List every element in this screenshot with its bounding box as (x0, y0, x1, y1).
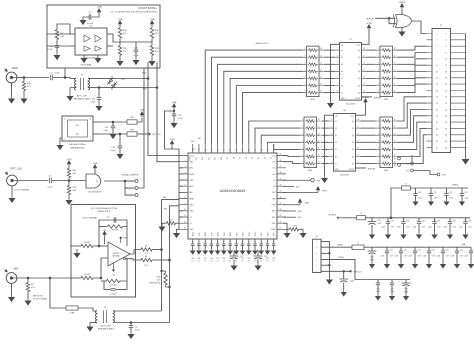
svg-text:Q4: Q4 (358, 71, 360, 73)
net label UPWR (J2) (337, 245, 343, 247)
wire row2 cap 0 top (386, 247, 388, 251)
jumper pad ENC_OUT (125, 187, 138, 191)
svg-text:38: 38 (280, 160, 282, 162)
ground (row1 cap 4) (448, 233, 452, 239)
svg-text:FB3: FB3 (130, 130, 133, 132)
ADC bottom pin numbers (192, 241, 275, 243)
ground (J1 rail) (463, 157, 469, 164)
svg-text:C1: C1 (190, 217, 192, 219)
svg-text:3: 3 (437, 40, 438, 42)
svg-text:37: 37 (211, 150, 213, 152)
svg-text:AIN: AIN (164, 208, 168, 211)
ground (UPBUS cap 0) (413, 200, 417, 206)
ground (R13) (149, 59, 154, 65)
wire gate out (104, 180, 135, 182)
svg-text:+5VA: +5VA (304, 201, 309, 204)
svg-text:C52: C52 (449, 192, 452, 194)
svg-text:20: 20 (229, 241, 231, 243)
wire row1 cap 5 top (465, 218, 467, 222)
ground (AIN shield) (9, 295, 14, 301)
wire C10 top (112, 122, 114, 126)
resistor R6 499 (79, 242, 95, 248)
wire row3 cap 0 bot (377, 285, 379, 294)
svg-text:C26: C26 (210, 258, 213, 260)
capacitor C46b 0.1uF (436, 250, 449, 258)
svg-text:AD8138: AD8138 (113, 252, 119, 255)
svg-text:2: 2 (446, 33, 447, 35)
capacitor C11 0.1uF (172, 114, 184, 120)
wire row2 cap 6 bot (470, 253, 472, 262)
junction AIN T2 (49, 277, 51, 279)
svg-text:18: 18 (217, 241, 219, 243)
ground (bottom pin 4) (216, 249, 220, 254)
svg-text:DO NOT INSTALL: DO NOT INSTALL (82, 216, 97, 219)
wire U8-RN4 row 135 (361, 134, 376, 136)
wire bottom cap 2 to gnd (204, 246, 206, 249)
wire E3 up (411, 155, 413, 162)
wire row2 cap 1 bot (400, 253, 402, 262)
optional DC-coupled encode circuit box (47, 5, 160, 68)
power OPW (right) (283, 187, 327, 193)
connector J1 (432, 25, 451, 153)
svg-text:DVCC: DVCC (243, 231, 245, 236)
svg-text:R15: R15 (73, 170, 78, 172)
svg-text:6.3V: 6.3V (432, 256, 435, 258)
svg-text:29: 29 (436, 122, 438, 124)
svg-text:D11: D11 (215, 157, 217, 160)
svg-text:ENC: ENC (142, 73, 147, 75)
wire C45 top (343, 271, 345, 279)
wire opamp out b (126, 259, 139, 260)
svg-text:D10: D10 (221, 157, 223, 160)
junction enc bus a (147, 78, 149, 80)
resistor R11 510 (118, 44, 127, 57)
svg-text:+3.3VD: +3.3VD (366, 23, 373, 25)
wire RN3-U8 row 156 (322, 156, 329, 158)
wire RN2-J1 row 2 (397, 59, 427, 65)
svg-text:+: + (364, 249, 366, 251)
svg-text:C50: C50 (418, 192, 421, 194)
junction osc C10 (112, 121, 114, 123)
svg-text:+5VA: +5VA (140, 109, 145, 112)
svg-text:39: 39 (280, 154, 282, 156)
svg-text:U8: U8 (343, 110, 345, 112)
wire AIN out (17, 277, 71, 279)
capacitor C47 (bottom decoupling) (235, 244, 239, 246)
wire bottom cap 3 to gnd (210, 246, 212, 249)
svg-text:+: + (250, 254, 252, 256)
svg-text:29: 29 (260, 150, 262, 152)
svg-text:0.1µF: 0.1µF (397, 226, 401, 228)
wire C28 bot (98, 99, 100, 104)
ground (row2 cap 4) (441, 262, 445, 268)
wire UPWR to bead (342, 217, 357, 219)
svg-text:GND: GND (190, 180, 195, 182)
junction L2 feed (390, 217, 392, 219)
resistor R18 (288, 225, 300, 231)
power +5VA (R10) (118, 18, 123, 27)
bus D1 group2 right (283, 156, 300, 157)
ground (bottom pin 10) (253, 249, 257, 254)
wire left bus join 3 (179, 173, 183, 175)
svg-text:D3: D3 (341, 64, 343, 66)
ground (bottom pin 9) (247, 249, 251, 254)
wire gate in b (389, 18, 396, 23)
net label ENC (142, 73, 147, 75)
capacitor C42b 0.1uF (380, 250, 393, 258)
wire RN1-U7 row 78 (324, 77, 335, 79)
wire U8 clk route (356, 167, 367, 169)
wire row2 cap 4 bot (442, 253, 444, 262)
bus D3 group2 (268, 142, 301, 144)
svg-text:R2: R2 (31, 284, 34, 286)
svg-text:510: 510 (155, 33, 159, 35)
bus D7 group1 (243, 93, 303, 144)
power arrow UPWR IN (328, 214, 342, 219)
capacitor C46 0.1uF (376, 283, 380, 293)
junction gate out (124, 180, 126, 182)
wire C41 top (371, 247, 373, 251)
svg-text:OE: OE (335, 116, 337, 118)
svg-text:0.1µF: 0.1µF (422, 256, 426, 258)
ground (bottom pin 6) (228, 249, 232, 254)
svg-text:33: 33 (235, 150, 237, 152)
svg-text:D9: D9 (227, 157, 229, 159)
label AINB net (164, 208, 168, 211)
capacitor C41 (bottom decoupling) (197, 244, 201, 246)
svg-text:0.1µF: 0.1µF (436, 256, 440, 258)
wire R4 node (57, 24, 70, 34)
svg-text:C27: C27 (216, 258, 219, 260)
wire U8-RN4 row 156 (361, 156, 376, 158)
ground (R17) (159, 225, 164, 231)
svg-text:22: 22 (242, 241, 244, 243)
svg-text:13: 13 (184, 228, 186, 230)
wire L2 feed from row below (391, 188, 402, 218)
wire ENC line A to bus (116, 78, 148, 80)
svg-text:DO NOT INSTALL: DO NOT INSTALL (14, 189, 29, 192)
svg-text:31: 31 (280, 203, 282, 205)
J1 left pin stubs (427, 34, 433, 148)
svg-text:Q2: Q2 (352, 128, 354, 130)
ground (bottom pin 2) (203, 249, 207, 254)
svg-text:C23: C23 (191, 258, 194, 260)
wire C21 top (233, 251, 235, 256)
svg-text:0.1µF: 0.1µF (428, 226, 432, 228)
svg-text:(SEE NOTE 4): (SEE NOTE 4) (97, 211, 110, 213)
ground (row1 cap 1) (401, 233, 405, 239)
wire opamp vcc (104, 237, 106, 244)
svg-text:11: 11 (320, 84, 322, 86)
svg-text:AVCC: AVCC (217, 231, 220, 236)
wire T1 prim bot gnd stub (69, 88, 71, 95)
svg-text:RN4: RN4 (384, 170, 389, 172)
svg-text:R9 499: R9 499 (112, 230, 118, 232)
ground (row2 cap 2) (413, 262, 417, 268)
resistor R10 510 (118, 26, 127, 40)
svg-text:11: 11 (184, 215, 186, 217)
svg-text:DNC: DNC (298, 217, 302, 219)
wire R8 to bus (154, 259, 170, 261)
wire row2 cap 5 bot (456, 253, 458, 262)
capacitor C18 1pF (110, 289, 116, 296)
svg-text:R17: R17 (169, 220, 172, 222)
inverting output marker (123, 258, 125, 260)
wire osc vcc to bead (100, 121, 127, 123)
svg-text:16: 16 (357, 133, 359, 135)
svg-text:30: 30 (254, 150, 256, 152)
label AIN net (163, 196, 167, 199)
svg-text:Q4: Q4 (352, 142, 354, 144)
wire bottom cap 9 to gnd (248, 246, 250, 249)
net pad PH1 (283, 179, 320, 183)
junction J2 gnd4 (329, 265, 330, 266)
svg-text:Q1: Q1 (358, 50, 360, 52)
svg-text:D10: D10 (272, 174, 275, 176)
wire left bus join 10 (179, 216, 183, 218)
wire T1 sec bottom (88, 87, 101, 89)
svg-text:D8: D8 (233, 157, 235, 159)
wire U8-RN4 row 121 (361, 120, 376, 122)
ground (C9) (80, 18, 85, 24)
svg-text:D7: D7 (335, 163, 337, 165)
ADC right pin stubs (277, 156, 286, 230)
bus D5 group2 (255, 128, 300, 144)
svg-text:ADT1–1WT: ADT1–1WT (101, 324, 112, 327)
wire J1 ground rail (465, 34, 467, 158)
label INSTALL JUMPER (122, 174, 139, 177)
wire osc out to bead (100, 133, 127, 135)
resistor R14 499 (104, 279, 122, 286)
wire RN4-J1 row 1 (397, 103, 427, 128)
wire U7-RN2 row 50 (367, 49, 376, 51)
svg-text:RN1: RN1 (311, 99, 316, 101)
wire J2 UPDIG (321, 270, 350, 272)
svg-text:16: 16 (318, 119, 320, 121)
svg-text:27: 27 (273, 241, 275, 243)
svg-text:0.1: 0.1 (198, 261, 200, 263)
wire T2 prim gnd (89, 323, 91, 325)
wire row1 cap 0 bot (387, 224, 389, 233)
wire C1 to T1 (53, 78, 70, 79)
svg-text:L–PAD: L–PAD (69, 311, 75, 314)
note text DO NOT INSTALL (138, 7, 157, 10)
resistor R9 499 (105, 225, 125, 232)
svg-text:GND: GND (199, 232, 201, 236)
capacitor C52 (UPBUS) (444, 192, 453, 199)
svg-text:510: 510 (155, 51, 159, 53)
ground (R16) (66, 198, 71, 204)
svg-text:BUF/LAT: BUF/LAT (368, 167, 376, 170)
svg-text:L1: L1 (360, 213, 362, 215)
note do not install (opt_clk) (14, 189, 29, 192)
ground (R2) (25, 299, 30, 305)
svg-text:11: 11 (394, 84, 396, 86)
note R2 (33, 296, 48, 301)
svg-text:DNC: DNC (272, 217, 276, 219)
resistor R16 100 (67, 184, 76, 196)
ground (U8 OE) (322, 176, 327, 182)
wire bottom cap 11 to gnd (260, 246, 262, 249)
wire bottom cap 6 to gnd (229, 246, 231, 249)
ground (J2) (327, 278, 332, 284)
ground (bottom pin 11) (259, 249, 263, 254)
wire encode line A down (147, 62, 149, 79)
svg-text:D4: D4 (258, 157, 260, 159)
wire fb bottom right (122, 258, 127, 281)
svg-text:0.1µF: 0.1µF (48, 49, 54, 51)
ADC inner top/bottom pin names (190, 156, 276, 236)
ground (row1 cap 3) (432, 233, 436, 239)
svg-text:15: 15 (318, 126, 320, 128)
junction box/ENC (64, 77, 66, 79)
wire C41 bot (371, 255, 373, 263)
net label ENCB (143, 89, 148, 91)
svg-text:ADT1–1WT: ADT1–1WT (77, 94, 88, 97)
wire bottom cap 5 to gnd (223, 246, 225, 249)
svg-text:C9: C9 (89, 12, 93, 14)
net label BUF/LAT (U8) (368, 167, 376, 170)
wire gate pwr (94, 170, 96, 174)
svg-text:6.3V: 6.3V (391, 226, 394, 228)
wire ENC bnc stub (17, 77, 24, 79)
svg-text:10: 10 (184, 209, 186, 211)
svg-text:23: 23 (436, 103, 438, 105)
svg-text:31: 31 (248, 150, 250, 152)
bus D0 group2 right (283, 162, 300, 164)
svg-text:Q3: Q3 (352, 135, 354, 137)
svg-text:OE: OE (341, 45, 343, 47)
wire R17 gnd stub (161, 223, 163, 224)
wire RN3-U8 row 164 (322, 163, 329, 165)
transformer T2 ADT1-1WT (95, 307, 115, 331)
wire row1 cap 4 top (449, 218, 451, 222)
wire C6 bot (130, 328, 132, 333)
svg-text:13: 13 (318, 140, 320, 142)
BNC connector ENC (4, 66, 18, 83)
svg-text:R11: R11 (123, 48, 127, 50)
label U6 VCC/OUT (76, 125, 80, 136)
jumper pad OPT_OUT (125, 180, 138, 184)
ground (row1 cap 5) (463, 233, 467, 239)
svg-text:37: 37 (436, 147, 438, 149)
svg-text:D12: D12 (272, 162, 275, 164)
power OPW (R15) (67, 159, 72, 167)
svg-text:ENC: ENC (12, 66, 18, 70)
svg-text:19: 19 (223, 241, 225, 243)
svg-text:15: 15 (394, 55, 396, 57)
ground (T2 primary) (87, 325, 92, 331)
wire U5 pin right bottom (107, 45, 113, 47)
wire R26 gnd (23, 92, 25, 97)
ground (opamp ref) (74, 251, 79, 257)
wire opamp out a (130, 250, 139, 255)
svg-text:26: 26 (445, 109, 447, 111)
inductor L1 (352, 243, 364, 250)
svg-text:D5: D5 (341, 78, 343, 80)
wire C16 top (119, 134, 121, 146)
svg-text:17: 17 (357, 126, 359, 128)
svg-text:DNC: DNC (272, 211, 276, 213)
svg-text:8: 8 (90, 119, 91, 121)
wire U8-RN4 row 142 (361, 141, 376, 143)
svg-text:AVCC: AVCC (204, 231, 207, 236)
wire C2 to gate (52, 180, 86, 182)
wire osc out stub (93, 133, 100, 135)
ground (C31) (370, 233, 374, 239)
svg-text:AVCC: AVCC (190, 185, 195, 188)
svg-text:36: 36 (280, 172, 282, 174)
net stub VREF (120, 237, 128, 243)
wire J2 gnd row2 (321, 252, 329, 254)
svg-text:3: 3 (316, 253, 317, 255)
svg-text:D12: D12 (208, 157, 210, 160)
wire row1 cap 1 top (403, 218, 405, 222)
svg-text:VREF: VREF (271, 229, 276, 231)
svg-text:+5VA: +5VA (97, 6, 103, 9)
wire +3.3VD to pin (172, 146, 179, 156)
svg-text:R16: R16 (73, 187, 76, 189)
svg-text:Q6: Q6 (358, 85, 360, 87)
power +5VA (osc) (140, 109, 145, 118)
svg-text:0.1µF: 0.1µF (412, 226, 416, 228)
svg-text:C34: C34 (260, 258, 263, 260)
wire C18 left (104, 281, 111, 289)
wire opamp gnd stub (76, 249, 78, 251)
capacitor C6 0.1uF (129, 326, 140, 332)
ground (T1 primary) (67, 94, 72, 100)
wire row3 cap 1 bot (391, 285, 393, 294)
svg-text:OVR: OVR (197, 138, 201, 140)
svg-text:49.9: 49.9 (27, 86, 32, 88)
resistor R26 49.9 (22, 80, 31, 92)
svg-text:U5: U5 (90, 26, 94, 28)
inductor L2 (402, 183, 411, 190)
ADC inner side pin names (190, 155, 277, 231)
junction T2 sec (130, 322, 132, 324)
svg-text:0.1: 0.1 (273, 261, 275, 263)
resistor R8 24.9 (139, 256, 154, 267)
wire RN3-U8 row 149 (322, 148, 329, 150)
capacitor C45 (bottom decoupling) (222, 244, 226, 246)
svg-text:GND: GND (335, 169, 339, 171)
wire RN4-J1 row 2 (397, 110, 427, 136)
svg-text:C35: C35 (437, 220, 440, 222)
note text DC coupled encode option (111, 12, 157, 14)
svg-text:R13: R13 (155, 48, 160, 50)
wire bottom cap 4 to gnd (217, 246, 219, 249)
resistor R3 475 (150, 271, 170, 287)
wire row2 cap 0 bot (386, 253, 388, 262)
capacitor C45 10uF (336, 277, 354, 283)
svg-text:36: 36 (445, 141, 447, 143)
svg-text:ENC: ENC (190, 168, 194, 170)
IC U5 MC100LVEL16 (75, 26, 107, 60)
svg-text:Q7: Q7 (358, 92, 360, 94)
svg-text:12: 12 (445, 65, 447, 67)
wire UPBUS cap 3 top (461, 188, 463, 194)
svg-text:GND: GND (236, 232, 238, 236)
svg-text:14: 14 (64, 119, 66, 121)
svg-text:D8: D8 (273, 186, 275, 188)
svg-text:0.1: 0.1 (217, 261, 219, 263)
svg-text:6.3V: 6.3V (437, 226, 440, 228)
bus D9 group1 (230, 78, 302, 144)
ground (row3 cap 1) (390, 294, 394, 300)
title DC coupled AIN option (91, 207, 118, 213)
svg-text:+: + (399, 281, 401, 283)
svg-text:R26: R26 (27, 83, 32, 85)
